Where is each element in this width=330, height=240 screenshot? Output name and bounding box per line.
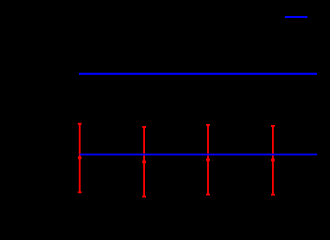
data marker 3 [206, 158, 210, 162]
error bar 3 top cap [206, 124, 210, 126]
error bar 4 bottom cap [271, 194, 275, 196]
error bar 3 bottom cap [206, 194, 210, 196]
error bar 4 top cap [271, 125, 275, 127]
data marker 2 [142, 160, 146, 164]
lower blue line [80, 154, 318, 156]
error bar 3 stem [207, 125, 209, 195]
error bar 2 stem [143, 127, 145, 197]
legend line sample [285, 16, 308, 18]
error bar 2 top cap [142, 126, 146, 128]
error bar 1 top cap [78, 123, 82, 125]
data marker 4 [271, 158, 275, 162]
error bar 1 bottom cap [78, 191, 82, 193]
data marker 1 [78, 156, 82, 160]
error bar 4 stem [272, 126, 274, 195]
error bar 2 bottom cap [142, 196, 146, 198]
error bar 1 stem [79, 124, 81, 193]
upper blue data line [79, 73, 317, 75]
